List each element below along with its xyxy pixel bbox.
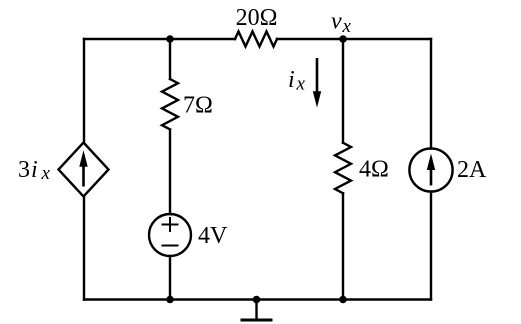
resistor R 20ohm bbox=[235, 32, 277, 47]
wire branch1 middle bbox=[169, 129, 171, 214]
wire top-left segment bbox=[84, 38, 235, 40]
plus sign of V1 bbox=[162, 217, 179, 232]
current source 2A arrow bbox=[427, 154, 435, 186]
resistor R 7ohm bbox=[162, 79, 178, 129]
current source I1 2A circle bbox=[409, 148, 452, 191]
ground stub bbox=[255, 300, 257, 320]
ground bar bbox=[242, 319, 271, 322]
svg-text:4V: 4V bbox=[198, 223, 228, 249]
wire left lower bbox=[83, 197, 85, 300]
wire right lower bbox=[430, 192, 432, 300]
svg-text:2A: 2A bbox=[457, 157, 487, 183]
svg-text:4Ω: 4Ω bbox=[359, 157, 389, 183]
svg-text:7Ω: 7Ω bbox=[183, 93, 213, 119]
node dot ground bbox=[253, 296, 261, 304]
voltage source V1 4V circle bbox=[149, 214, 191, 256]
node dot bottom branch1 bbox=[166, 296, 174, 304]
current ix arrow bbox=[313, 58, 321, 108]
minus sign of V1 bbox=[162, 245, 179, 247]
node dot bottom branch2 bbox=[339, 296, 347, 304]
node vx dot bbox=[339, 35, 347, 43]
svg-text:v: v bbox=[331, 9, 342, 35]
wire branch2 bottom bbox=[342, 193, 344, 299]
wire left upper bbox=[83, 39, 85, 143]
svg-text:x: x bbox=[296, 74, 306, 95]
wire top-right segment bbox=[277, 38, 431, 40]
svg-text:3i: 3i bbox=[18, 157, 39, 183]
svg-text:x: x bbox=[342, 16, 352, 37]
dependent source U1 diamond bbox=[59, 143, 109, 197]
node A dot top branch1 bbox=[166, 35, 174, 43]
svg-text:20Ω: 20Ω bbox=[236, 5, 278, 31]
svg-text:i: i bbox=[288, 67, 295, 93]
wire bottom bbox=[84, 298, 431, 300]
resistor R 4ohm bbox=[335, 143, 351, 193]
wire right upper bbox=[430, 39, 432, 149]
dependent source arrow bbox=[79, 150, 87, 186]
wire branch2 top bbox=[342, 39, 344, 143]
wire branch1 top bbox=[169, 39, 171, 79]
svg-text:x: x bbox=[41, 163, 51, 184]
wire branch1 bottom bbox=[169, 256, 171, 300]
